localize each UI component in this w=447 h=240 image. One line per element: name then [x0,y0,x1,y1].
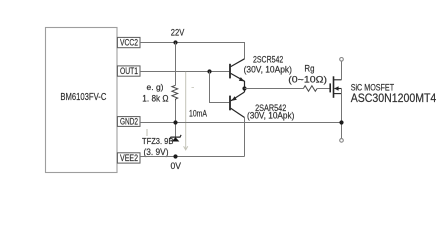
wire VEE2 0V rail [140,156,245,158]
node 22V junction [173,40,177,44]
svg-text:10mA: 10mA [189,108,207,118]
svg-text:SiC MOSFET: SiC MOSFET [351,82,395,92]
wire drain up [341,61,343,80]
svg-text:BM6103FV-C: BM6103FV-C [60,92,106,103]
node OUT1 split junction [207,69,211,73]
svg-text:0V: 0V [171,161,182,172]
terminal source circle [340,139,344,143]
wire PNP collector to VEE rail [244,118,246,157]
wire to PNP base [210,72,230,103]
wire NPN collector up [244,43,246,59]
wire bias chain lower [175,101,177,137]
svg-text:e. g): e. g) [147,82,164,92]
pin VCC2 [117,37,140,47]
svg-text:Rg: Rg [304,64,314,74]
faint mark right of resistor [192,87,195,89]
wire GND2 rail [140,122,342,124]
svg-text:VEE2: VEE2 [120,153,138,163]
svg-text:GND2: GND2 [120,117,138,127]
terminal drain circle [340,58,344,62]
resistor R1 e.g 1.8k zigzag [172,85,178,101]
op-amp U1 BM6103FV-C IC body [46,28,118,173]
svg-text:OUT1: OUT1 [120,66,138,76]
svg-text:TFZ3. 9B: TFZ3. 9B [142,136,174,146]
svg-text:(0~10Ω): (0~10Ω) [288,75,327,85]
svg-text:(3. 9V): (3. 9V) [144,147,169,157]
svg-text:ASC30N1200MT4: ASC30N1200MT4 [351,93,437,105]
transistor Q2 2SAR542 PNP [230,89,245,118]
wire VCC2 22V rail [140,43,245,60]
pin GND2 [117,117,140,127]
svg-text:VCC2: VCC2 [120,38,138,48]
svg-text:(30V, 10Apk): (30V, 10Apk) [247,111,294,121]
wire source down [341,89,343,139]
pin OUT1 [117,66,140,76]
svg-text:1. 8k Ω: 1. 8k Ω [142,93,169,103]
node GND2-zener junction [173,120,177,124]
node emitter output junction [242,86,246,90]
resistor Rg zigzag [303,86,317,92]
svg-text:22V: 22V [171,27,185,37]
pin VEE2 [117,153,140,163]
node VEE2-zener junction [173,154,177,158]
zener D1 TFZ3.9B [170,135,181,142]
wire OUT1 to base [140,71,229,73]
wire Rg to gate [317,88,330,90]
faint mark above zener [146,129,148,136]
transistor Q3 SiC MOSFET symbol [330,76,341,98]
current arrow 10mA [184,72,188,150]
svg-text:(30V, 10Apk): (30V, 10Apk) [244,65,292,75]
transistor Q1 2SCR542 NPN [230,59,245,89]
node GND2-source junction [339,120,343,124]
wire output to Rg [245,88,304,90]
wire bias chain upper [175,43,177,86]
